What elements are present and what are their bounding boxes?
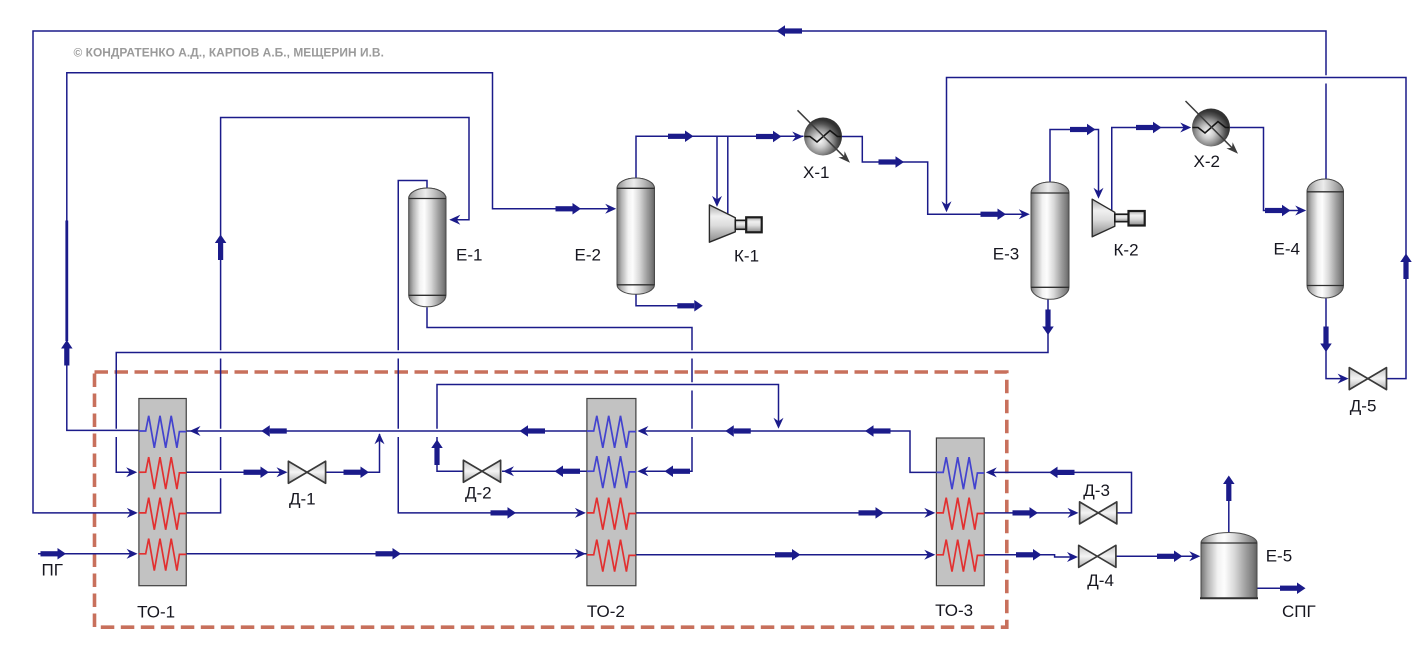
flow arrow to TO-3 coil2 bbox=[859, 507, 885, 519]
wire E-3 bottom to TO-1 coil2 bbox=[116, 300, 1048, 473]
flow arrow SPG product bbox=[1280, 582, 1306, 594]
flow arrow into E-4 bbox=[1265, 205, 1291, 217]
arrow into E-3 bbox=[1019, 209, 1030, 219]
flow arrow into E-2 bbox=[556, 203, 582, 215]
wire K-1 discharge bbox=[727, 136, 729, 213]
wire TO-1 coil1 to E-2 bbox=[67, 73, 610, 431]
TO-1 coil 2 (hot) bbox=[139, 457, 186, 489]
bold segment on riser bbox=[65, 221, 68, 342]
flow arrow to K-1 bbox=[668, 131, 694, 143]
arrow into TO-1 coil4 bbox=[127, 549, 138, 559]
throttle valve Д-1 bbox=[288, 461, 325, 483]
wire TO-2 coil1 to TO-1 coil1 bbox=[141, 430, 587, 432]
flow arrow on return line mid bbox=[725, 425, 751, 437]
flow arrow down to D-5 bbox=[1320, 327, 1332, 353]
flow arrow E-5 vent bbox=[1223, 476, 1235, 502]
wire E-1 top to TO-2 coil3 bbox=[398, 181, 578, 513]
wire D-1 to return line bbox=[326, 434, 380, 472]
flow arrow PG feed bbox=[41, 548, 67, 560]
flow arrow to E-5 bbox=[1157, 551, 1183, 563]
arrow into TO-1 coil1 bbox=[190, 426, 201, 436]
TO-3 coil 1 (cold return) bbox=[936, 457, 984, 489]
arrow into D-5 bbox=[1338, 374, 1349, 384]
flow arrow to D-4 bbox=[1016, 549, 1042, 561]
arrow into E-4 bbox=[1295, 206, 1306, 216]
vessel E-4 bbox=[1307, 179, 1344, 298]
TO-2 coil 3 (hot) bbox=[587, 498, 636, 530]
wire D-5 recycle to E-3 inlet bbox=[947, 78, 1407, 379]
compressor K-1 bbox=[709, 205, 761, 242]
svg-text:СПГ: СПГ bbox=[1282, 602, 1316, 621]
vessel E-5 (LNG drum) bbox=[1200, 533, 1258, 599]
TO-1 coil 4 (feed gas) bbox=[139, 539, 186, 571]
TO-3 coil 2 (hot) bbox=[936, 498, 984, 530]
svg-text:Е-4: Е-4 bbox=[1274, 240, 1300, 259]
arrow into D-2 bbox=[503, 466, 514, 476]
svg-text:Х-2: Х-2 bbox=[1194, 152, 1220, 171]
arrow into TO-2 coil1 bbox=[637, 426, 648, 436]
svg-text:Д-4: Д-4 bbox=[1087, 571, 1114, 590]
flow arrow to E-3 bbox=[981, 209, 1007, 221]
wire TO-1 coil2 to D-1 bbox=[186, 471, 282, 473]
throttle valve Д-5 bbox=[1349, 368, 1386, 390]
svg-text:ПГ: ПГ bbox=[42, 561, 63, 580]
svg-text:Х-1: Х-1 bbox=[803, 163, 829, 182]
vessel E-2 bbox=[617, 178, 655, 294]
wire TO-3 coil2 to valve D-3 bbox=[984, 512, 1072, 514]
wire TO-1 coil3 to E-1 inlet bbox=[186, 118, 469, 513]
svg-text:ТО-2: ТО-2 bbox=[587, 602, 625, 621]
red dashed boundary box bbox=[95, 372, 1007, 627]
svg-text:К-2: К-2 bbox=[1114, 241, 1139, 260]
arrow into TO-2 coil2 bbox=[637, 466, 648, 476]
flow arrow PG line bbox=[376, 548, 402, 560]
arrow into TO-2 coil4 bbox=[575, 549, 586, 559]
wire D-2 to return line bbox=[437, 385, 779, 472]
arrow into D-1 bbox=[277, 467, 288, 477]
throttle valve Д-4 bbox=[1079, 545, 1116, 567]
wire X-2 to E-4 bbox=[1230, 128, 1300, 211]
arrow into K-2 bbox=[1094, 188, 1104, 199]
flow arrow up recycle riser bbox=[1400, 254, 1412, 280]
wire X-1 to E-3 bbox=[842, 137, 1023, 215]
arrow into E-1 bbox=[449, 215, 460, 225]
wire E-4 top to TO-1 coil3 bbox=[33, 31, 1326, 513]
wire E-3 top to K-2 bbox=[1050, 130, 1099, 193]
arrow into D-4 bbox=[1067, 552, 1078, 562]
heat exchanger TO-2 box bbox=[587, 399, 636, 586]
arrow into TO-3 coil1 bbox=[986, 467, 997, 477]
arrow into K-1 bbox=[712, 196, 722, 207]
arrow into X-2 bbox=[1180, 123, 1191, 133]
flow arrow to X-1 bbox=[756, 131, 782, 143]
wire D-3 to TO-3 coil1 bbox=[990, 472, 1132, 513]
svg-text:ТО-1: ТО-1 bbox=[137, 603, 175, 622]
wire TO-3 coil3 to D-4 bbox=[984, 555, 1072, 557]
arrow into TO-3 coil2 bbox=[924, 508, 935, 518]
wire K-2 discharge to X-2 bbox=[1112, 128, 1185, 212]
TO-2 coil 2 (cold) bbox=[587, 456, 636, 488]
TO-1 coil 3 (hot) bbox=[139, 498, 186, 530]
flow arrow down from E-3 bbox=[1042, 310, 1054, 336]
wire E-2 top to X-1 bbox=[636, 136, 804, 179]
flow arrow on top return line bbox=[777, 25, 803, 37]
flow arrow E-2 drain bbox=[677, 300, 703, 312]
svg-text:Е-5: Е-5 bbox=[1266, 547, 1292, 566]
wire TO-2 coil4 to TO-3 coil3 bbox=[636, 554, 929, 556]
vessel E-3 bbox=[1031, 182, 1069, 299]
wire TO-2 coil2 to D-2 bbox=[502, 470, 587, 472]
arrow into TO-3 coil3 bbox=[924, 550, 935, 560]
svg-text:Е-1: Е-1 bbox=[456, 246, 482, 265]
flow arrow to D-3 bbox=[1013, 507, 1039, 519]
flow arrow on return line right bbox=[865, 425, 891, 437]
svg-text:© КОНДРАТЕНКО А.Д., КАРПОВ А.Б: © КОНДРАТЕНКО А.Д., КАРПОВ А.Б., МЕЩЕРИН… bbox=[74, 45, 384, 59]
arrow into E-2 bbox=[605, 204, 616, 214]
svg-text:Д-3: Д-3 bbox=[1083, 481, 1110, 500]
arrow into TO-1 coil2 bbox=[126, 467, 137, 477]
arrow joining return line bbox=[774, 418, 784, 429]
TO-2 coil 1 (cold return) bbox=[587, 416, 636, 448]
svg-text:К-1: К-1 bbox=[734, 247, 759, 266]
air cooler X-2 bbox=[1186, 101, 1242, 157]
TO-2 coil 4 (feed gas) bbox=[587, 540, 636, 572]
arrow into X-1 bbox=[792, 132, 803, 142]
throttle valve Д-2 bbox=[463, 460, 500, 482]
svg-text:Д-2: Д-2 bbox=[465, 484, 492, 503]
flow arrow up to E-1 bbox=[215, 235, 227, 261]
svg-text:Е-3: Е-3 bbox=[993, 245, 1019, 264]
wire PG feed bbox=[38, 553, 131, 555]
heat exchanger TO-1 box bbox=[139, 399, 186, 586]
wire E-4 bottom to D-5 bbox=[1326, 299, 1342, 379]
arrow into D-3 bbox=[1068, 508, 1079, 518]
svg-text:Д-1: Д-1 bbox=[289, 490, 316, 509]
wire E-1 bottom to TO-2 coil2 bbox=[427, 307, 692, 471]
svg-text:ТО-3: ТО-3 bbox=[935, 601, 973, 620]
compressor K-2 bbox=[1092, 199, 1145, 237]
wire TO-1 coil4 to TO-2 coil4 bbox=[186, 553, 587, 555]
flow arrow to D-1 bbox=[244, 467, 270, 479]
arrow joining E-3 inlet bbox=[942, 201, 952, 212]
throttle valve Д-3 bbox=[1080, 502, 1117, 524]
arrow joining return line bbox=[375, 433, 385, 444]
arrow into E-5 bbox=[1189, 551, 1200, 561]
flow arrow to K-2 bbox=[1070, 124, 1096, 136]
air cooler X-1 bbox=[798, 110, 854, 166]
heat exchanger TO-3 box bbox=[936, 438, 984, 586]
flow arrow after X-1 bbox=[879, 156, 905, 168]
arrow into TO-1 coil3 bbox=[127, 508, 138, 518]
vessel E-1 bbox=[409, 188, 446, 307]
svg-text:Д-5: Д-5 bbox=[1350, 397, 1377, 416]
flow arrow to TO-2 coil3 bbox=[491, 507, 517, 519]
wire TO-3 coil1 to TO-2 coil1 bbox=[641, 431, 936, 472]
TO-1 coil 1 (cold return) bbox=[139, 416, 186, 448]
svg-text:Е-2: Е-2 bbox=[575, 246, 601, 265]
wire E-2 bottom drain bbox=[636, 295, 678, 306]
wire branch into K-1 bbox=[716, 136, 718, 199]
TO-3 coil 3 (feed gas) bbox=[936, 540, 984, 572]
flow arrow to TO-2 coil2 bbox=[665, 466, 691, 478]
wire E-5 vent bbox=[1228, 500, 1230, 534]
arrow into TO-2 coil3 bbox=[575, 508, 586, 518]
flow arrow to TO-3 coil1 bbox=[1049, 467, 1075, 479]
flow arrow on return line bbox=[520, 425, 546, 437]
flow arrow up riser to E-2 bbox=[61, 340, 73, 366]
flow arrow to X-2 bbox=[1136, 122, 1162, 134]
flow arrow on return line left bbox=[261, 425, 287, 437]
flow arrow PG line 2 bbox=[775, 549, 801, 561]
flow arrow to D-2 bbox=[555, 466, 581, 478]
flow arrow from D-1 bbox=[344, 467, 370, 479]
wire D-4 to E-5 bbox=[1116, 555, 1194, 557]
wire E-5 to SPG bbox=[1257, 587, 1285, 589]
flow arrow up from D-2 bbox=[431, 440, 443, 466]
wire TO-2 coil3 to TO-3 coil2 bbox=[636, 512, 928, 514]
